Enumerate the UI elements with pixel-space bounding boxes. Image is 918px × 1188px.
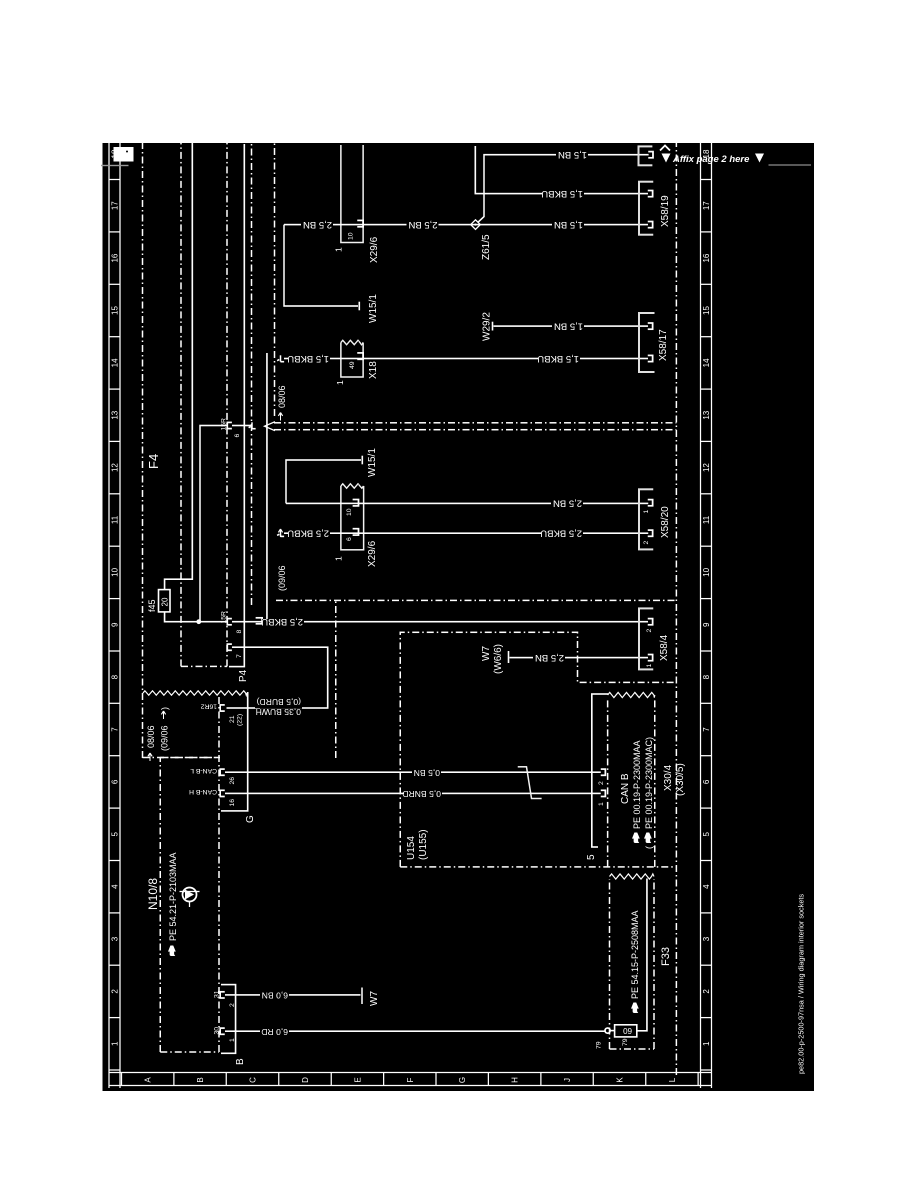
wire pin7 jumper to socket pin 16R2 [227,647,328,708]
validity marker arrow 08/06 (at region divider) [278,413,282,421]
svg-text:16R2: 16R2 [201,703,217,710]
svg-text:2,5 BN: 2,5 BN [553,498,582,509]
svg-text:7: 7 [702,727,711,732]
wire label 0,5 BNRD [402,789,442,800]
wire label 1,5 BN (W29/2 wire) [552,320,584,333]
ground W15/1 (first) bar [358,302,360,311]
svg-text:1: 1 [702,1041,711,1046]
pin 1 of X58/17 [648,323,653,329]
spare socket bracket (page edge) [639,146,653,165]
svg-text:2,5 BKBU: 2,5 BKBU [287,528,329,539]
wire label (0,5 BURD) [255,697,302,708]
wire: internal link to terminal 15R pin 6 [200,426,228,622]
wire label 1,5 BKBU (X18 wire, near socket) [537,353,580,366]
connector X18 body with zigzag end [341,343,363,378]
wire label 2,5 BKBU (X58/20 wire, near socket) [540,528,583,541]
svg-text:6: 6 [346,537,353,541]
double dash-dot shared border (region divider) line 2 [274,422,676,424]
svg-text:16: 16 [229,799,236,807]
wire label 2,5 BN (upper) [301,219,333,232]
svg-text:15: 15 [702,306,711,315]
svg-text:5: 5 [586,854,597,860]
svg-text:11: 11 [702,515,711,524]
pin 15R/8 of P4 [227,619,232,625]
wire 2,5 BKBU via X29/6 pin 6 to X58/20 pin 2 [284,532,648,534]
svg-text:PE 54.21-P-2103MAA: PE 54.21-P-2103MAA [168,852,178,941]
svg-text:1: 1 [598,802,605,806]
pin circle of F33 [605,1028,610,1033]
svg-text:F33: F33 [660,947,672,966]
svg-text:31: 31 [214,990,221,998]
svg-text:1,5 BKBU: 1,5 BKBU [541,188,583,199]
document pointer hand icon (F33) [631,1003,639,1014]
pin 15R/6 of P4 [227,422,232,428]
grid column numbers 1-18 bottom band [702,149,711,1046]
svg-text:0,5 BN: 0,5 BN [414,768,440,778]
svg-text:1: 1 [335,380,345,385]
pin 10 of X29/6 [357,220,363,226]
svg-text:15: 15 [111,306,120,315]
pin 7 of P4 [227,644,232,650]
connector bracket G of N10/8 [221,692,248,811]
wire 6,0 BN from pin 31 to ground W7 [225,994,361,996]
pin 49 of X18 [357,353,363,359]
svg-text:12: 12 [702,463,711,472]
svg-text:6: 6 [702,779,711,784]
svg-text:10: 10 [348,232,355,240]
grid column numbers 1-17 top band [111,149,120,1046]
pin of spare socket [648,152,653,158]
socket X58/20 bracket [639,489,653,549]
svg-text:A: A [144,1077,153,1083]
svg-text:1: 1 [229,1038,236,1042]
svg-text:(09/06: (09/06 [160,725,170,751]
wire 6,0 RD from pin 30 to fuse F33 [225,1030,605,1032]
pin 2 of X58/19 [648,222,653,228]
svg-text:0,35 BUWH: 0,35 BUWH [256,707,301,717]
svg-text:17: 17 [702,201,711,210]
svg-text:PE 00.19-P-2300MAA: PE 00.19-P-2300MAA [632,740,642,829]
svg-text:Z61/5: Z61/5 [481,234,492,260]
wire 2,5 BN main riser (W15/1 to Z61/5 to X58/19 pin 2) [284,224,648,226]
wire fuse 60 to pin circle [610,1030,614,1032]
N10/8 continuation zigzag border [143,691,247,695]
outer dash-dot border of interior-compartment area (top) [142,143,144,758]
svg-text:CAN-B L: CAN-B L [190,767,217,774]
svg-text:K: K [616,1077,625,1083]
ground W29/2 bar [492,322,494,331]
svg-text:10: 10 [702,567,711,576]
svg-text:2: 2 [229,1003,236,1007]
connector X29/6 (first, to page 2) body [341,145,363,243]
svg-text:6,0 BN: 6,0 BN [262,991,288,1001]
grid frame: title-block rulers [102,143,712,1091]
wire link rail to X18 branch [266,353,268,621]
svg-text:F: F [406,1077,415,1082]
svg-text:6,0 RD: 6,0 RD [261,1027,288,1037]
svg-text:L: L [668,1077,677,1082]
svg-text:14: 14 [111,358,120,367]
pin 1 of X58/4 [648,655,653,661]
second region divider border [276,599,676,601]
svg-text:0,5 BNRD: 0,5 BNRD [402,789,441,799]
pin 16R2 of N10/8 [220,705,225,711]
pin label CAN-B L [190,767,217,774]
wire label 2,5 BN (second, below X29/6) [407,219,439,232]
twisted-pair symbol on CAN wires [518,767,542,799]
wire CAN-B H 0,5 BNRD to X30/4 pin 1 [225,792,601,794]
svg-text:11: 11 [111,515,120,524]
svg-text:1: 1 [111,1041,120,1046]
wire 2,5 BN from W15/1 via X29/6 pin 10 to X58/20 pin 1 [286,502,648,504]
svg-text:Affix page 2 here: Affix page 2 here [672,154,750,165]
wire label 1,5 BKBU (X18 wire, upper) [287,353,330,366]
svg-text:13: 13 [702,410,711,419]
pin 1 of X30/4 [601,790,606,796]
wire branch from Z61/5 to spare pin [478,155,649,223]
connector bracket 5 of U154 [592,694,608,847]
chevron junction of shared borders [265,422,276,431]
pin 2 of X58/4 [648,619,653,625]
wire label 1,5 BKBU (from page2) [541,188,584,201]
svg-text:U154: U154 [406,836,417,860]
svg-text:1: 1 [334,556,344,561]
wire label 2,5 BN (X58/4 wire) [533,652,565,665]
junction dot fuse output node [196,619,201,624]
wire: supply into fuse f45 from page right [165,143,193,590]
siren symbol inside N10/8 [180,888,200,908]
svg-text:P4: P4 [238,669,249,682]
svg-text:(W6/6): (W6/6) [493,644,504,674]
svg-text:J: J [563,1078,572,1082]
svg-text:26: 26 [229,777,236,785]
pin label CAN-B H [189,788,217,795]
wire label 1,5 BN (branch) [556,149,588,162]
solder joint Z61/5 diamond [471,220,481,230]
wire label 6,0 RD [260,1027,289,1038]
pin CAN-B L (26) [220,769,225,775]
svg-text:16: 16 [111,253,120,262]
pin 31 [220,992,225,998]
ground W7 (W6/6) bar [508,651,510,663]
svg-text:4: 4 [702,884,711,889]
svg-text:X18: X18 [368,361,379,379]
svg-text:2,5 BN: 2,5 BN [408,219,437,230]
svg-text:1,5 BN: 1,5 BN [554,219,583,230]
svg-text:1,5 BKBU: 1,5 BKBU [287,353,329,364]
wire 1,5 BN from W29/2 to X58/17 pin 1 [494,325,649,327]
wire fuse 60 internal to continuation [637,879,647,1031]
pin 2 of X58/17 [648,355,653,361]
pin 6 of X29/6 second [353,529,359,535]
svg-text:X29/6: X29/6 [369,236,380,263]
continuation chevron to page 2 [660,146,811,166]
svg-text:2,5 BKBU: 2,5 BKBU [540,528,582,539]
svg-text:10: 10 [346,508,353,516]
svg-text:6: 6 [234,434,241,438]
svg-text:H: H [511,1077,520,1083]
svg-text:X58/4: X58/4 [659,634,670,661]
svg-text:(09/06: (09/06 [277,565,287,591]
svg-text:13: 13 [111,410,120,419]
black scanned-page background [101,143,814,1091]
svg-text:7: 7 [111,727,120,732]
svg-text:2,5 BKBU: 2,5 BKBU [261,616,303,627]
svg-text:1: 1 [646,664,653,668]
svg-text:CAN-B H: CAN-B H [189,788,217,795]
pin 1 of X58/20 [648,500,653,506]
P4 strip left end cap [181,665,227,667]
svg-text:5: 5 [702,832,711,837]
F4 fuse box strip bottom border [180,143,182,666]
wire label 2,5 BN (X58/20 wire) [551,498,583,511]
X30/4 box zigzag end [608,692,655,697]
svg-text:X58/20: X58/20 [660,506,671,538]
svg-text:E: E [353,1077,362,1082]
wire CAN-B L 0,5 BN to X30/4 pin 2 [225,771,601,773]
left end cap of outer top box (shared with N10/8) [143,757,221,759]
connector bracket B of N10/8 [221,985,236,1054]
ground W15/1 (second) wire [286,460,361,503]
X30/4 connector box [608,698,655,867]
svg-text:(X30/5): (X30/5) [675,763,686,796]
svg-text:(U155): (U155) [418,829,429,860]
grid row letters A-L left band [144,1077,677,1083]
pin 2 of X30/4 [601,769,606,775]
pin 30 [220,1028,225,1034]
U154 radio box [400,632,676,867]
svg-text:B: B [196,1077,205,1082]
svg-text:PE 00.19-P-2300MAC): PE 00.19-P-2300MAC) [644,737,654,829]
dash-dot border right of frame (main bottom border) [675,143,677,1075]
svg-text:C: C [249,1077,258,1083]
svg-text:2: 2 [643,541,650,545]
inline pin on 2,5 BKBU wire at strip border [256,618,263,624]
svg-text:14: 14 [702,358,711,367]
svg-text:2: 2 [702,989,711,994]
wire label 1,5 BN (lower) [552,219,584,232]
svg-text:(22): (22) [237,714,244,726]
pin 2 of X58/20 [648,530,653,536]
box border between connector region boxes (top-right region bottom) [274,143,276,416]
svg-text:08/06: 08/06 [277,385,287,408]
svg-text:W7: W7 [481,646,492,661]
svg-text:1,5 BN: 1,5 BN [558,149,587,160]
wire label 0,5 BN [412,768,441,779]
svg-text:2: 2 [598,781,605,785]
fuse f45 body [159,590,171,612]
svg-text:6: 6 [111,779,120,784]
wire 2,5 BN from W7(W6/6) to X58/4 pin 1 [510,657,649,659]
wire label 0,35 BUWH [256,707,302,718]
svg-text:4: 4 [111,884,120,889]
svg-text:F4: F4 [146,454,161,469]
socket X58/19 bracket [639,182,653,235]
svg-text:08/06: 08/06 [146,725,156,748]
svg-text:15R: 15R [221,418,228,431]
svg-text:2,5 BN: 2,5 BN [303,219,332,230]
svg-text:5: 5 [111,832,120,837]
svg-text:2,5 BN: 2,5 BN [535,652,564,663]
svg-text:G: G [245,815,256,823]
svg-text:W15/1: W15/1 [368,294,379,323]
F33 box zigzag end [610,874,655,879]
wire label 2,5 BKBU (X58/20 wire, upper) [287,528,330,541]
socket X58/4 bracket [639,608,653,669]
P4 strip bottom border with pins [226,143,228,666]
dash-dot link border N10/8 to divider [335,600,337,758]
svg-text:f45: f45 [147,599,157,612]
svg-text:12: 12 [111,463,120,472]
double dash-dot shared border (region divider) line 1 [274,429,676,431]
svg-text:X29/6: X29/6 [367,540,378,567]
wire: fuse f45 output to junction [165,612,199,622]
svg-text:21: 21 [229,715,236,723]
wire 2,5 BKBU from pin 15R/8 down to X58/4 pin 2 [232,621,648,623]
svg-text:9: 9 [702,622,711,627]
svg-text:2: 2 [111,989,120,994]
pin 1 of X58/19 [648,191,653,197]
wire: junction down to terminal 15R pin 8 [199,621,228,623]
svg-text:(0,5 BURD): (0,5 BURD) [256,697,301,707]
svg-text:X58/17: X58/17 [658,329,669,361]
wire label 6,0 BN [260,991,289,1002]
svg-text:30: 30 [214,1027,221,1035]
fuse value 60 [623,1026,632,1035]
F33 fuse box [610,879,655,1049]
svg-text:3: 3 [111,936,120,941]
svg-text:7: 7 [236,654,243,658]
svg-text:8: 8 [236,630,243,634]
wire 1,5 BKBU from page 2 to X58/19 pin 1 [475,146,648,194]
wire label 2,5 BKBU (main feed) [261,616,304,629]
pin 10 of X29/6 second [353,500,359,506]
svg-text:): ) [160,707,170,710]
ground W15/1 (second) bar [361,456,363,465]
svg-text:2: 2 [646,629,653,633]
cell-18 white patch [114,147,134,162]
svg-text:17: 17 [111,201,120,210]
svg-text:pe82.00-p-2500-97nsa / Wiring: pe82.00-p-2500-97nsa / Wiring diagram in… [797,894,806,1074]
svg-text:D: D [301,1077,310,1083]
svg-text:PE 54.15-P-2508MAA: PE 54.15-P-2508MAA [630,910,640,999]
svg-text:(: ( [644,846,654,849]
svg-text:8: 8 [702,674,711,679]
grey fold mark near cell 18 [101,165,129,167]
svg-text:10: 10 [111,567,120,576]
svg-text:X30/4: X30/4 [663,764,674,791]
svg-text:B: B [235,1058,246,1065]
N10/8 control unit box [160,695,219,1052]
svg-text:W7: W7 [369,991,380,1006]
wire rail to page 2 (right edge) [229,144,244,667]
socket X58/17 bracket [639,313,655,372]
svg-text:79: 79 [622,1038,629,1046]
svg-text:X58/19: X58/19 [660,195,671,227]
pin label 16R2 [201,703,217,710]
wire stub with curl from pin 15R/6 [232,425,252,427]
validity marker arrow 08/06 (at N10/8 border) [148,753,152,761]
svg-text:16: 16 [702,253,711,262]
svg-text:1: 1 [643,510,650,514]
svg-text:G: G [458,1077,467,1083]
svg-text:1,5 BN: 1,5 BN [554,320,583,331]
svg-text:9: 9 [111,622,120,627]
dash-dot lower border of P4 pin strip [251,143,253,605]
svg-text:3: 3 [702,936,711,941]
svg-text:N10/8: N10/8 [146,878,160,910]
svg-text:49: 49 [349,361,356,369]
svg-text:8: 8 [111,674,120,679]
svg-text:CAN B: CAN B [620,773,631,804]
svg-text:79: 79 [596,1041,603,1049]
document pointer hand icon [168,946,176,957]
svg-text:60: 60 [623,1026,632,1035]
wire from X18 down to X58/17 pin 2 [284,358,648,360]
ground point W7 bar [361,988,363,1005]
svg-text:1: 1 [334,247,344,252]
ground W15/1 (first) wire [284,225,358,306]
fuse 60 body in F33 [615,1025,637,1037]
svg-text:15R: 15R [221,611,228,624]
document pointer hand icon (X30/4) [632,833,640,844]
svg-text:W29/2: W29/2 [482,312,493,341]
svg-text:W15/1: W15/1 [367,448,378,477]
connector X29/6 (second) body with zigzag end [341,486,364,550]
pin CAN-B H (16) [220,790,225,796]
svg-text:1,5 BKBU: 1,5 BKBU [537,353,579,364]
svg-text:20: 20 [161,597,170,606]
